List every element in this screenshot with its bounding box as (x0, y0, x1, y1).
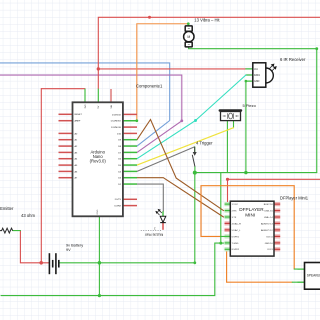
LED green lead (162, 211, 164, 216)
wire red left vertical (40, 89, 42, 263)
switch legs (194, 147, 196, 154)
svg-text:ADKEY2 13: ADKEY2 13 (261, 222, 273, 225)
svg-text:1 VCC: 1 VCC (232, 204, 239, 206)
node green IR gnd (244, 171, 247, 174)
svg-text:RESET: RESET (75, 114, 83, 116)
wire red to IR Vcc (98, 68, 246, 70)
arduino top pin labels (rotated) (85, 104, 113, 109)
node green d12 (135, 119, 138, 122)
svg-text:ADKEY1 12: ADKEY1 12 (261, 229, 273, 232)
speaker legs (298, 268, 305, 270)
speaker box LS1 (305, 263, 320, 290)
svg-text:6 SPK1: 6 SPK1 (232, 236, 240, 238)
LED diode D1 (160, 216, 166, 222)
svg-text:USB+ 14: USB+ 14 (264, 217, 274, 219)
wire red right rail to DFPlayer VCC (228, 179, 320, 204)
svg-text:GND: GND (97, 209, 99, 214)
svg-text:2 RX: 2 RX (232, 210, 237, 212)
node red IR branch (97, 67, 100, 70)
arduino pin labels right (111, 114, 122, 207)
piezo body (221, 112, 241, 121)
wire green resistor stub (13, 230, 21, 232)
svg-text:AREF: AREF (75, 120, 81, 123)
wire red to 3V3 pin (41, 88, 85, 90)
node green trigger bottom (193, 261, 196, 264)
node green bottom bus (98, 294, 101, 297)
node cyan bend (194, 119, 197, 122)
svg-text:(Rev3.0): (Rev3.0) (90, 158, 107, 163)
svg-text:D12/MISO: D12/MISO (111, 121, 122, 123)
svg-text:7 GND: 7 GND (232, 243, 239, 245)
wire red top rail (98, 17, 320, 88)
LED red lead (162, 223, 164, 230)
svg-text:USB- 15: USB- 15 (264, 210, 273, 212)
svg-text:SPEAKER: SPEAKER (307, 274, 320, 278)
IR receiver pin legs (246, 69, 253, 81)
svg-text:DFPLAYER: DFPLAYER (239, 207, 264, 212)
svg-text:M: M (187, 35, 190, 39)
svg-text:3 TX: 3 TX (232, 217, 237, 219)
node red dfplayer corner (226, 178, 229, 181)
svg-text:GND: GND (254, 80, 260, 83)
dfplayer body U2 (230, 201, 274, 256)
wire orange speaker2 (227, 249, 293, 282)
dfplayer right legs (unconnected) (274, 202, 280, 251)
svg-text:IO1 9: IO1 9 (267, 249, 273, 251)
svg-text:9v Battery: 9v Battery (66, 243, 83, 247)
ratsnest dotted (141, 230, 163, 232)
IR rays (270, 64, 277, 71)
wire green motor return (189, 47, 317, 173)
wire green bottom bus (1, 243, 224, 296)
node red battery plus (39, 261, 43, 265)
wire gray D2 to LED (137, 184, 163, 211)
wire green piezo right leg (233, 121, 235, 128)
svg-text:DATA: DATA (254, 74, 260, 77)
svg-text:Emitter: Emitter (0, 206, 14, 211)
wire green motor top jog (187, 24, 189, 26)
LED emission arrows (156, 209, 162, 215)
wire green trigger down (59, 173, 195, 263)
resistor R1 zigzag (0, 228, 13, 233)
wire orange D12 to motor (137, 24, 189, 121)
svg-text:6 IR Receiver: 6 IR Receiver (280, 57, 306, 62)
wire green piezo left to bus (226, 121, 228, 173)
wire gray D4 to switch (137, 147, 195, 172)
motor body M1 (185, 26, 192, 31)
wire blue bus D8 (0, 63, 170, 146)
wire red resistor drop (20, 231, 49, 263)
svg-text:IO2 11: IO2 11 (266, 236, 273, 238)
wire green gnd bus mid (195, 172, 317, 174)
arduino right legs green (connected) (123, 121, 137, 184)
svg-text:8 SPK2: 8 SPK2 (232, 249, 240, 251)
arduino right legs red (unconnected) (123, 114, 137, 205)
wire green speaker stubs (294, 268, 304, 270)
wire orange frame speaker1 (201, 186, 294, 269)
node green motor return corner (315, 47, 318, 50)
node green trigger (193, 171, 197, 175)
dfplayer left legs (225, 202, 231, 251)
svg-text:D0/RX: D0/RX (115, 206, 122, 208)
svg-text:GND 10: GND 10 (265, 243, 274, 245)
svg-text:D11/MOSI: D11/MOSI (111, 127, 121, 129)
svg-text:Muzzle Flair: Muzzle Flair (144, 232, 163, 236)
svg-text:13 Vibra – Hit: 13 Vibra – Hit (194, 17, 220, 22)
svg-text:VIN: VIN (111, 104, 113, 108)
arduino left legs (unconnected, red) (59, 114, 73, 177)
svg-text:5 Piezo: 5 Piezo (243, 103, 257, 108)
svg-text:Componente1: Componente1 (136, 83, 163, 88)
svg-text:DFPlayer Mini1: DFPlayer Mini1 (280, 196, 309, 201)
wire green orange-to-SPK1 (221, 235, 231, 237)
svg-text:D1/TX: D1/TX (115, 199, 122, 201)
wire yellow D5 to piezo (137, 128, 234, 165)
svg-text:9V: 9V (66, 248, 71, 252)
node green motor (187, 22, 190, 25)
wire brown D3 to DFPlayer TX (137, 178, 224, 217)
IR dome (266, 68, 274, 83)
arduino body U1 (73, 102, 123, 216)
svg-text:4 Trigger: 4 Trigger (196, 141, 213, 146)
node red top (148, 16, 151, 19)
svg-text:5 DAC_L: 5 DAC_L (232, 229, 242, 232)
wire brown D9 to DFPlayer RX (137, 120, 224, 211)
battery BT1 plates (49, 253, 58, 274)
dfplayer pin labels (232, 204, 242, 251)
node green IR gnd stub (245, 80, 248, 83)
node purple bend (180, 119, 183, 122)
svg-text:D13/SCK: D13/SCK (112, 114, 122, 116)
svg-text:MINI: MINI (245, 213, 255, 218)
svg-text:BUSY 16: BUSY 16 (264, 204, 274, 206)
wire green DFPlayer gnd to mid bus (220, 173, 222, 244)
arduino pin labels left (75, 114, 83, 179)
wire purple bus D7 (0, 75, 182, 152)
wire green IR gnd down (245, 81, 247, 173)
switch actuator arrow (194, 147, 196, 155)
piezo top plate (219, 109, 243, 112)
svg-text:4 DAC_R: 4 DAC_R (232, 222, 242, 225)
node green battery gnd (98, 261, 102, 265)
wire cyan D6 to IR DATA (137, 75, 246, 159)
wire green arduino GND vertical (98, 216, 100, 295)
node green dfplayer gnd (219, 242, 222, 245)
switch lever (192, 155, 195, 167)
IR body (253, 63, 266, 87)
arduino top legs (84, 89, 86, 103)
svg-text:43 ohm: 43 ohm (21, 213, 35, 218)
